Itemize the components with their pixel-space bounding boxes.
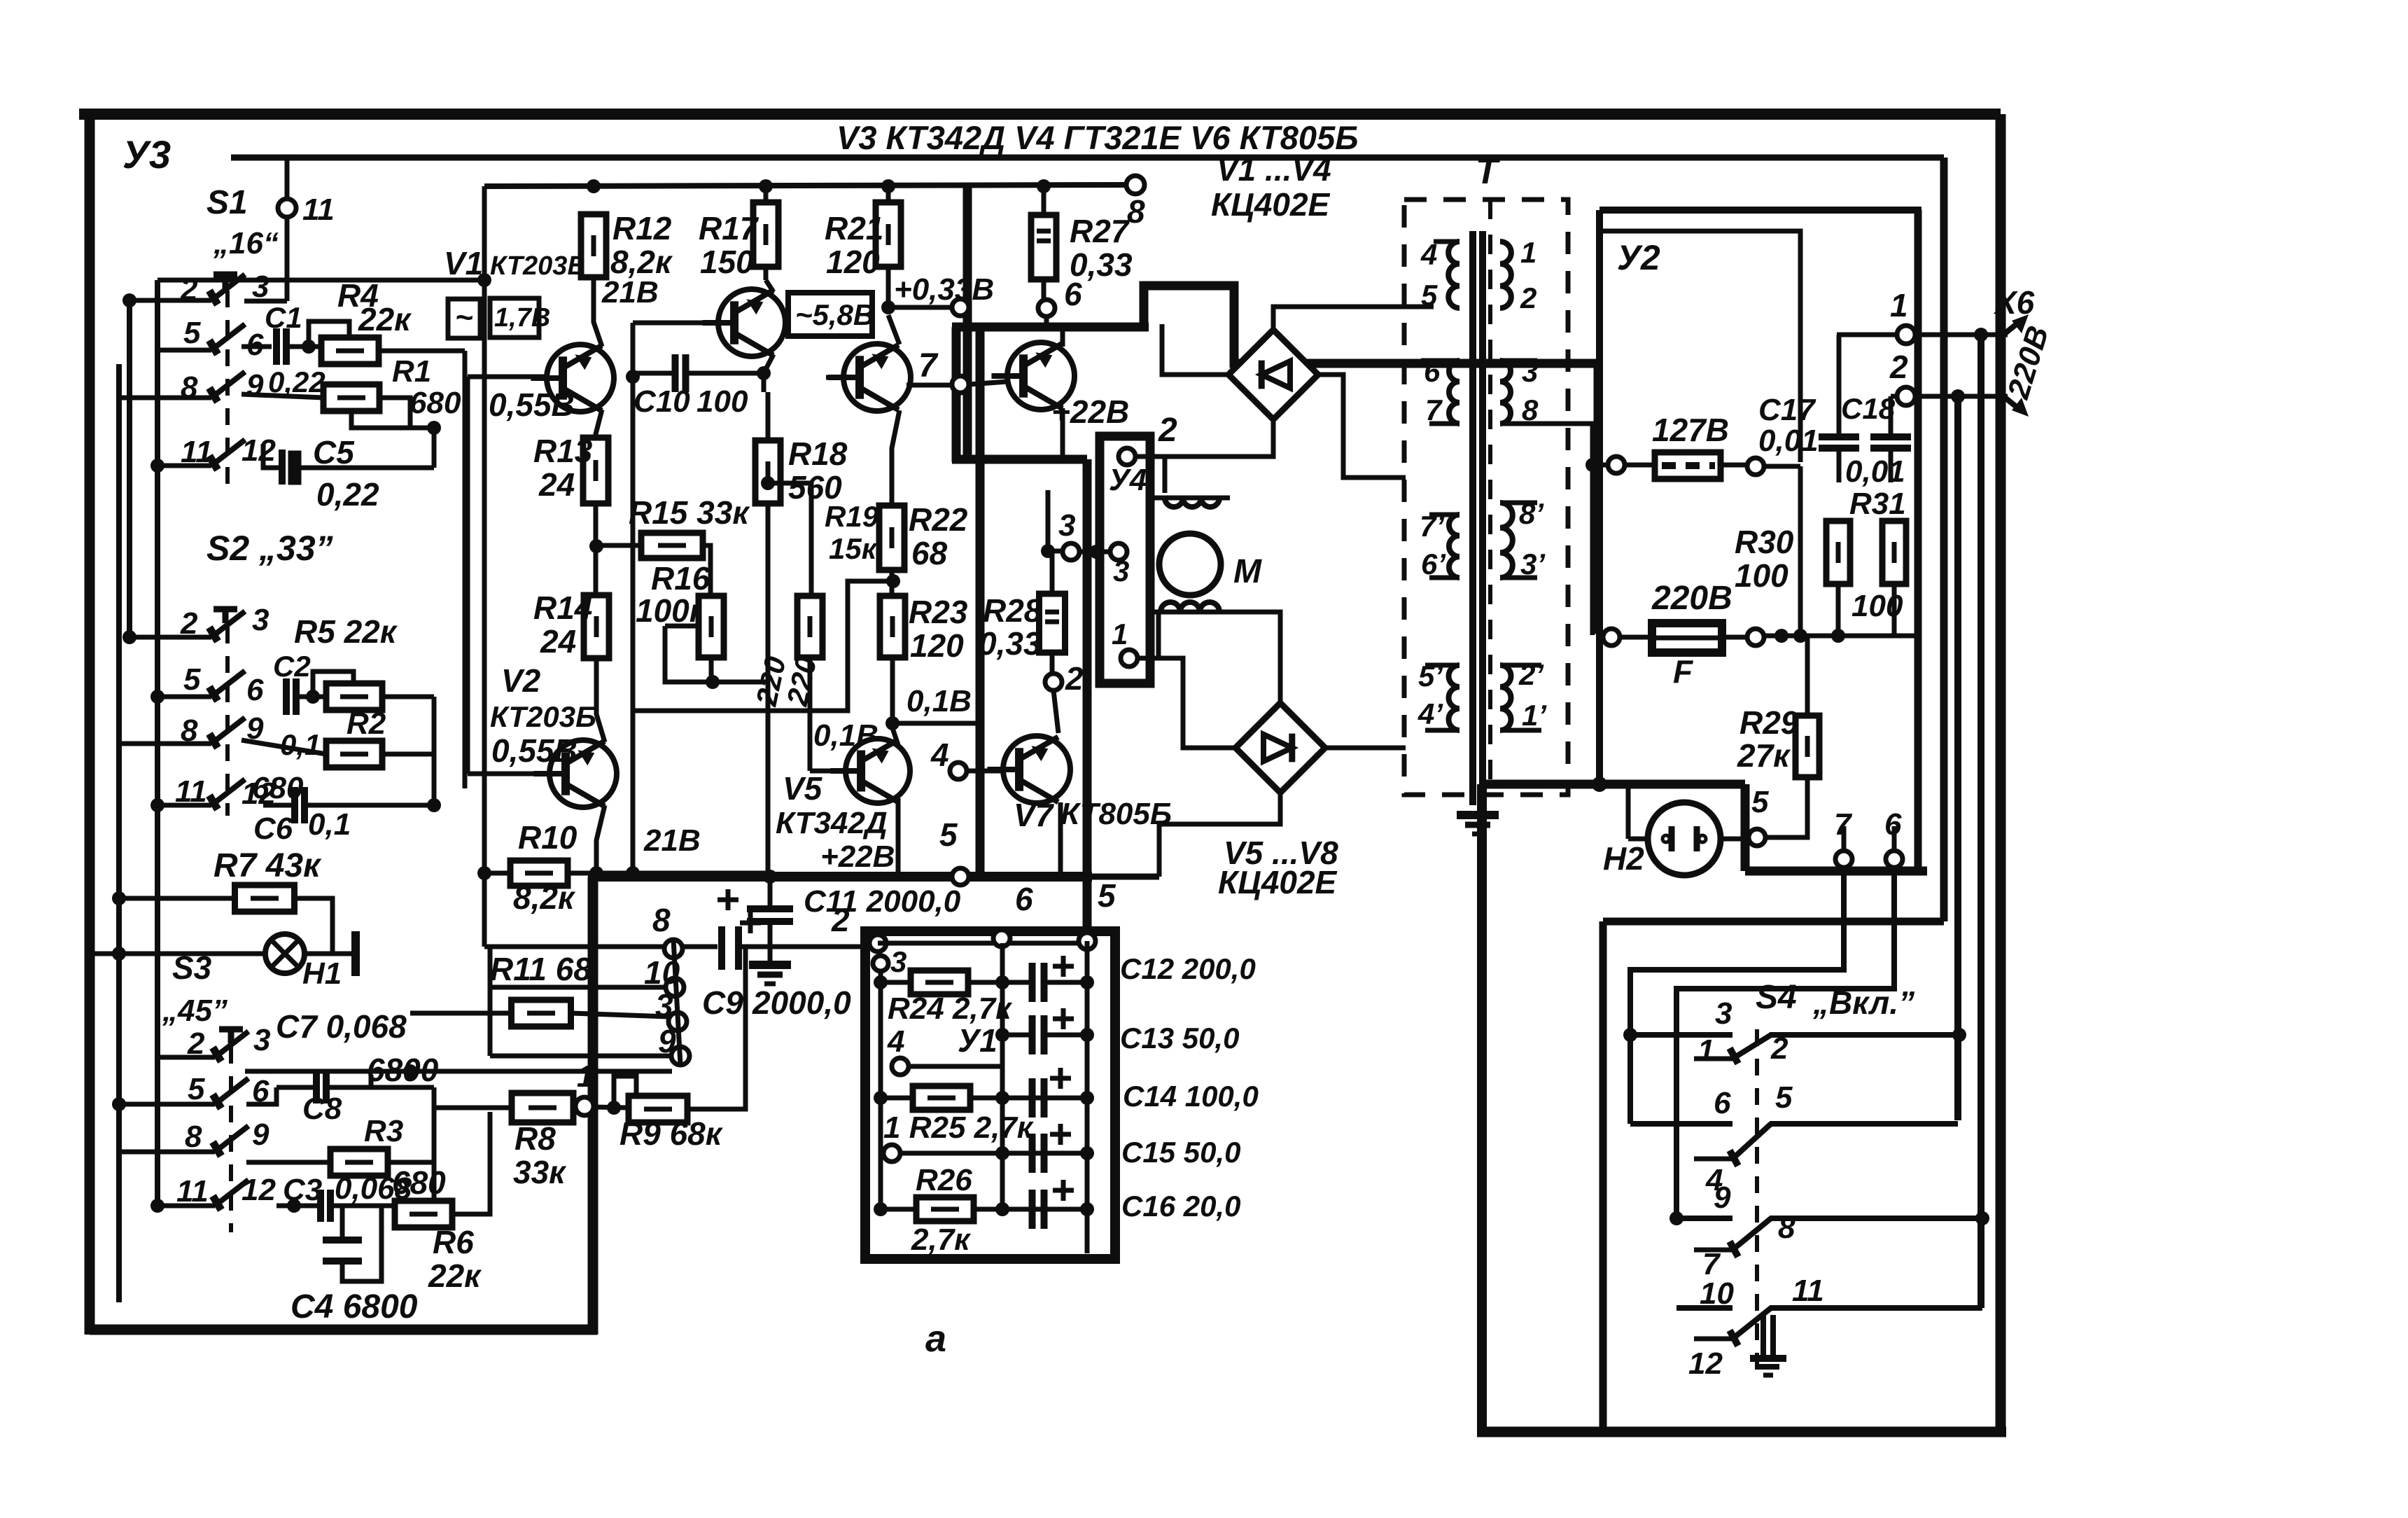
svg-text:R6: R6 [433, 1224, 474, 1260]
wire r28 bottom [1050, 653, 1055, 674]
wire pin2 left [1891, 394, 1897, 399]
resistor R15 [641, 533, 703, 558]
svg-text:3: 3 [890, 945, 906, 978]
bridge rectifier V5-V8 [1235, 703, 1325, 793]
label pin6 u2 [1884, 807, 1902, 842]
label pin8mid [1127, 193, 1145, 230]
wire V1 collector [594, 277, 602, 347]
wire S4 top edge [1603, 918, 1944, 926]
label C5 [313, 434, 355, 471]
label S3 row3 9 [252, 1117, 269, 1152]
label X6 [1993, 284, 2035, 321]
wire C1 to R4 [286, 344, 322, 349]
label s4 3 [1715, 996, 1732, 1031]
svg-text:С4 6800: С4 6800 [290, 1288, 418, 1325]
winding T 8p-3p [1500, 503, 1513, 578]
wire R6 right [452, 1112, 490, 1214]
wire 788 to u4 [1079, 550, 1110, 555]
svg-text:21В: 21В [601, 275, 659, 309]
label R22 [909, 501, 968, 538]
svg-text:1: 1 [1697, 1033, 1714, 1068]
svg-text:R9 68к: R9 68к [619, 1115, 724, 1152]
label w2 [1520, 281, 1536, 314]
label +0.33V [894, 272, 994, 307]
svg-text:0,55В: 0,55В [491, 732, 577, 769]
wire w8p stub [1500, 503, 1537, 578]
wire thick vert x2493 [1741, 784, 1750, 871]
label C6 0.1 [308, 807, 351, 842]
wire s4 row4 right [1770, 1305, 1982, 1311]
svg-text:R2: R2 [346, 706, 386, 741]
wire v4 to 7 [906, 383, 952, 388]
wire D vert [1977, 335, 1984, 1308]
winding T 3-8 [1500, 361, 1511, 424]
svg-text:С9: С9 [702, 984, 743, 1021]
node c11 top dot [763, 870, 777, 884]
label R28 0.33 [979, 625, 1042, 662]
label C3 [283, 1173, 322, 1207]
wire w45 stubs [1407, 242, 1459, 308]
wire w67 stub [1421, 361, 1459, 478]
wire S1 row2 right [241, 344, 272, 349]
svg-text:V5: V5 [783, 770, 823, 807]
winding motor upper [1150, 498, 1230, 507]
switch S3.2 blade [213, 1078, 248, 1108]
svg-text:V2: V2 [501, 662, 541, 699]
wire s4 row1 [1630, 1032, 1732, 1038]
wire wind1 right [1229, 498, 1231, 534]
wire thick bus vert x1400 [976, 327, 985, 877]
wire R2 left [241, 740, 326, 754]
switch S4.1 blade [1694, 1035, 1771, 1064]
wire R2 right [382, 752, 434, 757]
svg-text:R17: R17 [699, 210, 759, 246]
fuse 127V dashed [1655, 452, 1721, 479]
label S2 row1 3 [252, 603, 269, 637]
svg-text:а: а [925, 1318, 946, 1360]
wire x904 top elbow [633, 321, 718, 326]
svg-text:С12 200,0: С12 200,0 [1120, 952, 1256, 985]
svg-text:КТ342Д: КТ342Д [776, 806, 888, 840]
wire U2 left edge [1596, 210, 1603, 784]
label S1 row3 8 [181, 370, 198, 405]
label 220 rot a [750, 654, 792, 709]
wire U2 bottom edge [1745, 867, 1927, 876]
node R5 left dot [306, 690, 320, 704]
label C15 50 [1121, 1136, 1240, 1169]
node c13 dots [995, 1028, 1094, 1042]
svg-text:R22: R22 [909, 501, 968, 538]
wire pin2 right [1915, 394, 2008, 399]
wire U2 top edge [1599, 207, 1921, 214]
svg-text:11: 11 [1792, 1274, 1824, 1308]
svg-text:R10: R10 [518, 819, 577, 856]
svg-text:8: 8 [185, 1120, 202, 1154]
label w7p [1420, 510, 1445, 543]
wire outer left border [85, 114, 95, 1335]
label 6800 C8 [367, 1052, 439, 1088]
svg-text:8,2к: 8,2к [513, 879, 576, 916]
label w6 [1424, 355, 1441, 388]
svg-text:6: 6 [246, 673, 264, 707]
wire R5 wiper [313, 671, 353, 697]
svg-text:У4: У4 [1109, 463, 1147, 497]
label S4 Vkl [1812, 984, 1914, 1021]
label R6 22k [428, 1258, 482, 1294]
svg-text:1: 1 [577, 1059, 594, 1094]
wire S3 row4 [157, 1204, 215, 1209]
wire v2 emitter [596, 805, 605, 875]
svg-text:6: 6 [1714, 1086, 1731, 1120]
wire bridge2 bottom [1159, 793, 1280, 877]
label U1 pin4 [887, 1024, 904, 1059]
label S3 row4 11 [176, 1174, 209, 1209]
label pin2 r28 [1065, 660, 1084, 697]
svg-text:8: 8 [652, 902, 671, 938]
wire r28 top [1048, 459, 1052, 594]
label R13 [533, 433, 593, 469]
node circle2 r28 [1045, 674, 1062, 690]
resistor R25 [913, 1086, 970, 1110]
node R1 wiper dot [427, 421, 441, 435]
svg-text:R23: R23 [909, 594, 968, 630]
label C7 0.068 [276, 1008, 407, 1045]
wire pin10 row [490, 985, 666, 990]
label R28 [983, 592, 1042, 629]
label 220 rot b [780, 654, 823, 709]
label S3 row2 5 [188, 1072, 205, 1106]
node fuse127 left circle [1608, 457, 1625, 473]
wire S1 row3 [119, 396, 211, 401]
resistor R2 [326, 741, 382, 767]
wire R7 row [119, 896, 235, 901]
svg-text:22к: 22к [358, 301, 412, 337]
svg-text:С10: С10 [633, 384, 690, 419]
wire S2 row4 [157, 803, 211, 808]
svg-text:2,7к: 2,7к [911, 1223, 972, 1257]
wire f leads [1620, 635, 1747, 640]
svg-text:100: 100 [696, 384, 748, 419]
wire feeder 127 [1547, 307, 1578, 309]
label C2 0.1 [280, 728, 321, 761]
svg-text:С15 50,0: С15 50,0 [1121, 1136, 1240, 1169]
wire H1 row [90, 952, 266, 956]
label KC402E top [1211, 186, 1331, 223]
switch S1.4 blade [209, 440, 245, 470]
transistor V2 [533, 740, 617, 807]
wire bus ext [1087, 874, 1159, 880]
node u4 bot circle [1121, 650, 1137, 667]
svg-text:120: 120 [910, 627, 964, 664]
svg-text:R3: R3 [364, 1114, 403, 1148]
wire R3 wires [246, 1160, 434, 1165]
resistor R5 pot [326, 683, 382, 710]
transistor V7 [987, 736, 1070, 803]
capacitor C10 [675, 354, 686, 392]
wire 127 tap [1599, 231, 1800, 462]
transistor V4 [827, 344, 911, 411]
label U2 [1617, 238, 1660, 277]
wire R11 row [410, 1013, 668, 1017]
svg-text:R26: R26 [916, 1163, 972, 1197]
label R23 [909, 594, 968, 630]
wire row 788 [1048, 549, 1063, 554]
label pin5 u2 [1751, 785, 1769, 819]
label w4p [1417, 697, 1443, 730]
svg-text:24: 24 [540, 623, 576, 660]
wire r22 branch [635, 581, 893, 711]
node circle6 [1038, 300, 1055, 316]
wire C vert [1954, 396, 1961, 1120]
wire bridge1 bot2 [1135, 419, 1273, 457]
resistor R16 pot [699, 596, 724, 657]
label C6 [253, 812, 293, 846]
switch S4.4 blade [1694, 1308, 1771, 1346]
label pin7 [918, 347, 939, 384]
label s4 4 [1705, 1163, 1723, 1197]
resistor R28 [1039, 594, 1065, 653]
wire w38 stub [1500, 361, 1537, 424]
svg-text:„16“: „16“ [213, 226, 279, 260]
label R22 68 [911, 535, 948, 571]
wire w67 stub2 [1429, 422, 1459, 426]
wire w5p stub [1425, 665, 1459, 730]
label S3 row1 2 [187, 1026, 205, 1061]
label U1 pin3 [890, 945, 906, 978]
svg-text:127В: 127В [1652, 412, 1729, 448]
node r13r14 dot [589, 539, 603, 553]
capacitor C2 [286, 678, 296, 715]
winding T 2p-1p [1500, 665, 1511, 730]
label T [1476, 151, 1501, 192]
wire x586 c7 down [409, 1071, 411, 1162]
node S3 row2 dot [112, 1097, 126, 1111]
circle M motor [1159, 534, 1221, 595]
node v4 coll dot [881, 300, 895, 314]
wire f left [1598, 636, 1604, 641]
switch S1.1 T mark [213, 273, 237, 288]
svg-text:~: ~ [455, 300, 473, 335]
arrow 220 top [2003, 314, 2029, 335]
wire r29 top [1805, 636, 1810, 716]
svg-text:8: 8 [1127, 193, 1145, 230]
label R16 [651, 560, 710, 597]
svg-text:R28: R28 [983, 592, 1042, 629]
wire v2 collector [596, 659, 605, 742]
wire inner vert C x225 [155, 280, 160, 1206]
label R3 680 [392, 1164, 446, 1201]
label U4 2 [1158, 412, 1177, 449]
wire to 033 circle [888, 305, 952, 310]
label pin1 [577, 1059, 594, 1094]
wire bridge1 top [1273, 307, 1434, 330]
wire pin4 wire [909, 982, 1002, 1066]
resistor R21 [876, 202, 901, 267]
node circle7 [952, 376, 969, 393]
svg-text:0,1: 0,1 [280, 728, 321, 761]
transistor V1 [531, 344, 614, 412]
wire pin1 row [900, 1151, 1087, 1156]
label pin5 thick [939, 816, 958, 853]
resistor R14 [584, 595, 609, 658]
label R17 [699, 210, 759, 246]
node pin8 circle [664, 940, 682, 958]
label w7 [1425, 394, 1443, 426]
wire bridge2 right [1325, 746, 1406, 751]
wire v7 base [967, 769, 1003, 774]
label pin7 u2 [1834, 807, 1853, 842]
wire pin1 row [1837, 333, 1897, 337]
node pin7 u2 circle [1835, 851, 1852, 868]
wire H1 right [304, 952, 353, 956]
svg-text:Т: Т [1476, 151, 1501, 192]
switch S1.2 blade [209, 324, 245, 354]
label C9 [702, 984, 743, 1021]
wire c18a bott [1837, 448, 1842, 482]
svg-text:6: 6 [1064, 276, 1082, 312]
label 0.55V v1 [489, 387, 575, 423]
wire S1 row3 right [241, 394, 324, 398]
svg-text:5: 5 [1775, 1080, 1793, 1115]
resistor R3 [330, 1149, 388, 1176]
wire thick bus vert x847 [588, 877, 598, 1335]
capacitor C18b [1870, 437, 1911, 448]
label pin9 [658, 1023, 676, 1059]
label U1 pin6 [1015, 881, 1033, 917]
resistor R4 pot [321, 337, 379, 364]
node U1 pin6 circle [993, 930, 1010, 947]
wire r13 r14 [594, 503, 598, 594]
transistor V3 [702, 289, 785, 356]
label s4 2 [1770, 1031, 1788, 1066]
wire 7 to v6base [969, 382, 1007, 384]
node pin10 circle [666, 978, 684, 996]
label R29 [1739, 704, 1799, 741]
wire r28 to v7 col [1053, 690, 1058, 733]
svg-text:5: 5 [1098, 877, 1116, 914]
label w2p [1518, 658, 1544, 691]
label w5 [1421, 279, 1438, 312]
switch S1.1 blade [209, 274, 245, 305]
label R5 22k [294, 613, 398, 650]
label s4 1 [1697, 1033, 1714, 1068]
node r18 dot [761, 476, 775, 490]
label R12 [612, 210, 672, 246]
wire v2 base row [468, 772, 551, 777]
label 11 top [302, 193, 335, 227]
svg-text:21В: 21В [643, 823, 701, 858]
node r10 dots [477, 866, 640, 880]
wire r17 bott [764, 267, 769, 280]
label R12 8.2k [610, 244, 673, 280]
wire dashed S1 link [225, 291, 230, 490]
wire pin11 down to row1 [285, 217, 290, 301]
node H1 dot [112, 947, 126, 961]
label C5 0.22 [316, 476, 379, 513]
svg-text:2: 2 [1158, 412, 1177, 449]
svg-text:9: 9 [252, 1117, 269, 1152]
label 22V v6 [1051, 394, 1129, 430]
label V1 [444, 245, 483, 281]
label R1 680 [409, 386, 461, 420]
svg-text:R14: R14 [533, 590, 592, 626]
resistor R29 [1795, 716, 1819, 777]
svg-text:С2: С2 [273, 650, 311, 683]
label C1 0.22 [268, 365, 325, 398]
svg-text:R11 68: R11 68 [490, 951, 591, 987]
wire s4 left vert4 [1676, 1218, 1677, 1308]
label R30 [1735, 524, 1794, 560]
label R18 560 [788, 469, 842, 506]
wire vert x692 [482, 186, 487, 947]
svg-text:6800: 6800 [367, 1052, 439, 1088]
node v1 base dot [626, 370, 640, 384]
wire c8 right [326, 1085, 434, 1090]
label S2 row4 12 [241, 777, 276, 811]
node s4 row1 dots [1623, 1028, 1966, 1042]
node pin6 u2 circle [1886, 851, 1903, 868]
label S1 row1 3 [252, 270, 269, 304]
wire r17 top [764, 186, 769, 203]
resistor R11 [512, 1000, 571, 1026]
svg-text:КТ805Б: КТ805Б [1060, 797, 1172, 831]
node pin2 C dot [1951, 389, 1965, 403]
svg-text:5: 5 [188, 1072, 205, 1106]
label H1 [302, 956, 342, 991]
svg-text:1,7В: 1,7В [494, 303, 550, 333]
svg-text:Н2: Н2 [1603, 840, 1644, 877]
wire row4 stub [263, 444, 279, 468]
lamp H2 neon [1648, 802, 1721, 875]
node X6 pin1 circle [1897, 326, 1915, 344]
svg-text:С11 2000,0: С11 2000,0 [804, 884, 961, 919]
svg-text:У1: У1 [958, 1022, 997, 1059]
wire 127 down [1798, 466, 1803, 635]
wire r23 branch [892, 721, 980, 726]
label R16 100k [636, 592, 708, 629]
svg-text:V1: V1 [444, 245, 483, 281]
capacitor C9 electrolytic [722, 912, 761, 970]
node 033 circle [952, 299, 969, 316]
node r23 dot [885, 716, 899, 730]
node rail dots [587, 179, 1051, 193]
wire R8 row [434, 1106, 575, 1110]
svg-text:+22В: +22В [820, 840, 895, 874]
label R14 24 [540, 623, 576, 660]
label H2 [1603, 840, 1644, 877]
node C3 left dot [287, 1199, 301, 1213]
node s4 row3 dots [1669, 1211, 1989, 1225]
label S3 45 [162, 994, 227, 1028]
label R31 [1849, 487, 1906, 521]
label a mark [925, 1318, 946, 1360]
winding T 6-7 [1449, 361, 1459, 424]
label 21V v2 [643, 823, 701, 858]
label w8p [1519, 497, 1544, 530]
svg-text:R16: R16 [651, 560, 710, 597]
wire R15 right [703, 545, 710, 595]
label R26 2.7k [911, 1223, 972, 1257]
wire r31 bott [1892, 584, 1897, 635]
wire C6 left stub [263, 803, 294, 808]
wire T inner dashed [1488, 200, 1492, 795]
svg-text:5: 5 [939, 816, 958, 853]
switch S4.2 blade [1694, 1124, 1771, 1166]
capacitor C16 [1032, 1180, 1074, 1229]
label w8 [1522, 394, 1539, 426]
svg-text:0,1В: 0,1В [906, 684, 972, 718]
node c10 dot [757, 366, 771, 380]
